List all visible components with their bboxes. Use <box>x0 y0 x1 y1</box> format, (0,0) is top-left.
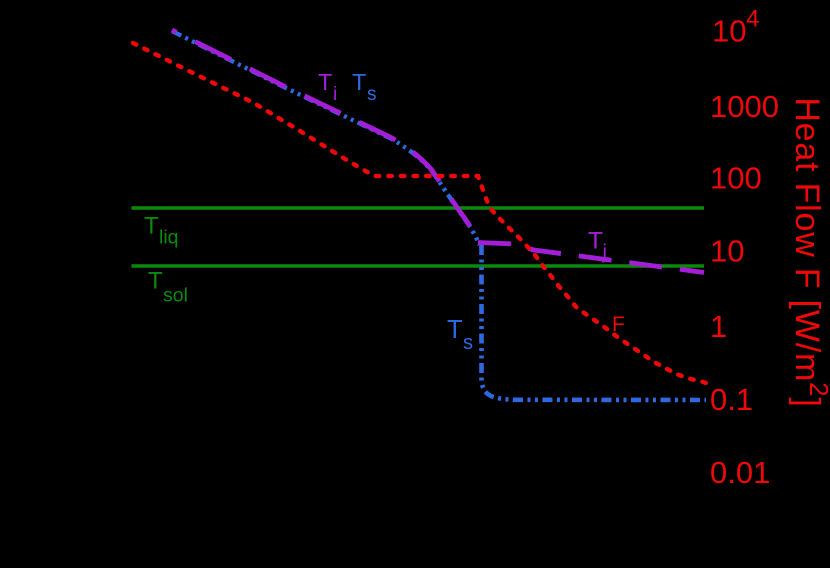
curve Tj purple branch <box>478 243 704 273</box>
svg-text:10: 10 <box>712 14 746 49</box>
svg-text:T: T <box>352 69 366 95</box>
svg-text:s: s <box>367 84 377 105</box>
svg-text:100: 100 <box>710 161 762 196</box>
svg-text:i: i <box>333 84 337 105</box>
svg-text:0.01: 0.01 <box>710 455 770 490</box>
green line T_sol <box>132 264 705 268</box>
svg-text:4: 4 <box>746 6 759 33</box>
svg-text:1: 1 <box>710 309 727 344</box>
svg-text:10: 10 <box>710 234 744 269</box>
curve F red dashed <box>133 43 706 383</box>
svg-text:0.1: 0.1 <box>710 382 753 417</box>
svg-text:T: T <box>144 213 159 240</box>
svg-text:T: T <box>588 228 603 255</box>
svg-text:F: F <box>612 313 625 336</box>
curve Ts blue vertical drop and flat tail <box>482 245 707 400</box>
svg-text:T: T <box>148 268 163 295</box>
svg-text:sol: sol <box>163 285 188 307</box>
svg-text:s: s <box>463 332 473 354</box>
svg-text:T: T <box>447 316 463 344</box>
green line T_liq <box>132 206 705 210</box>
svg-text:T: T <box>318 69 332 95</box>
svg-text:1000: 1000 <box>710 89 779 124</box>
curve Ts blue (under Ti) upper part <box>172 31 479 245</box>
svg-text:Heat Flow F [W/m2]: Heat Flow F [W/m2] <box>788 97 830 407</box>
svg-text:liq: liq <box>159 227 179 249</box>
curve Ti purple upper part <box>172 30 470 226</box>
svg-text:j: j <box>602 242 607 264</box>
